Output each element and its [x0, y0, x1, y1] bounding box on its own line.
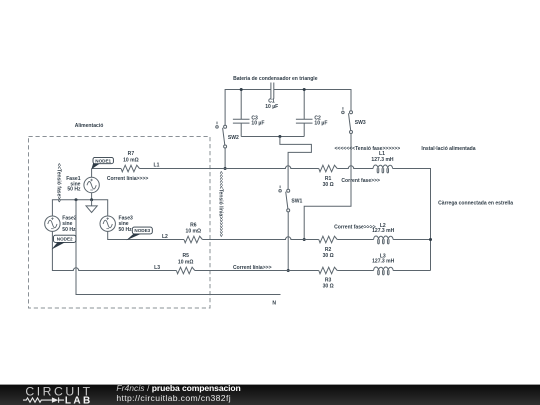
wire Fase1 top to L1 [91, 169, 93, 178]
capacitor C3 [233, 119, 250, 123]
svg-text:30 Ω: 30 Ω [323, 284, 334, 290]
resistor R6 [184, 236, 202, 243]
svg-text:LAB: LAB [65, 396, 93, 405]
svg-text:<<Tensió fase>>: <<Tensió fase>> [55, 163, 61, 202]
source Fase1 [84, 177, 99, 192]
wire Fase1 bottom to rail [91, 193, 93, 200]
wire L1 line [92, 168, 122, 170]
source Fase2 [45, 216, 60, 231]
svg-text:Corrent línia>>>>: Corrent línia>>>> [107, 176, 149, 182]
svg-text:10 µF: 10 µF [265, 104, 278, 110]
inductor L3 [374, 267, 394, 275]
svg-text:SW3: SW3 [355, 120, 366, 126]
capacitor C2 [296, 119, 313, 123]
resistor R7 [121, 165, 139, 172]
wire L3 mid [195, 270, 319, 272]
wire L3 to rail [393, 270, 430, 272]
wire top capacitor bus [225, 90, 351, 126]
svg-text:Corrent línia>>>: Corrent línia>>> [233, 265, 272, 271]
svg-text:L2: L2 [162, 234, 168, 240]
dashed enclosure Alimentacio [29, 137, 211, 309]
svg-text:NODE1: NODE1 [95, 158, 111, 163]
svg-text:R5: R5 [182, 253, 189, 259]
svg-text:50 Hz: 50 Hz [119, 227, 133, 233]
svg-text:30 Ω: 30 Ω [323, 253, 334, 259]
svg-text:Bateria de condensador en tria: Bateria de condensador en triangle [233, 76, 318, 82]
svg-text:10 mΩ: 10 mΩ [186, 229, 202, 235]
svg-text:Instal·lació alimentada: Instal·lació alimentada [421, 146, 475, 152]
svg-text:127.3 mH: 127.3 mH [372, 259, 395, 265]
svg-text:SW2: SW2 [228, 135, 239, 141]
svg-text:sine: sine [119, 221, 129, 227]
junction SW1-L3 [287, 269, 290, 272]
svg-text:L1: L1 [154, 162, 160, 168]
node NODE1 [91, 163, 100, 170]
wire L2 to rail [393, 239, 430, 241]
switch SW1 [279, 186, 290, 212]
inductor L2 [374, 236, 394, 244]
svg-text:<<<<<<Tensió línia>>>>>>>: <<<<<<Tensió línia>>>>>>> [218, 171, 224, 237]
wire SW2 to L1 [224, 148, 226, 169]
svg-text:R3: R3 [325, 278, 332, 284]
junction rail fase1 [90, 198, 93, 201]
svg-text:R2: R2 [325, 247, 332, 253]
svg-text:L3: L3 [154, 265, 160, 271]
junction top left [240, 88, 243, 91]
svg-text:sine: sine [62, 221, 72, 227]
svg-text:NODE2: NODE2 [57, 237, 73, 242]
wire L3 line from Fase2 [52, 231, 176, 270]
svg-text:127.3 mH: 127.3 mH [371, 157, 394, 163]
wire SW1 to L3 [287, 212, 289, 271]
wire L2 line [108, 231, 184, 239]
svg-text:Corrent fase>>>>: Corrent fase>>>> [334, 224, 376, 230]
svg-text:30 Ω: 30 Ω [323, 182, 334, 188]
svg-text:<<<<<<<Tensió fase>>>>>>: <<<<<<<Tensió fase>>>>>> [334, 146, 400, 152]
svg-text:N: N [272, 301, 276, 307]
junction rail neutral [75, 198, 78, 201]
wire L2 mid [202, 237, 318, 240]
svg-text:R1: R1 [325, 176, 332, 182]
resistor R5 [176, 267, 194, 274]
ground [91, 200, 93, 206]
svg-text:10 mΩ: 10 mΩ [178, 259, 194, 265]
svg-text:10 mΩ: 10 mΩ [123, 157, 139, 163]
svg-text:10 µF: 10 µF [251, 121, 264, 127]
svg-text:SW1: SW1 [291, 198, 302, 204]
wire L3 to coil [337, 270, 373, 272]
capacitor C1 [271, 83, 274, 99]
svg-text:127.3 mH: 127.3 mH [372, 228, 395, 234]
svg-text:Càrrega connectada en estrella: Càrrega connectada en estrella [438, 200, 513, 206]
junction SW2-L1 [224, 167, 227, 170]
svg-text:R6: R6 [190, 222, 197, 228]
svg-text:Fr4ncis / prueba compensacion: Fr4ncis / prueba compensacion [116, 383, 240, 393]
resistor R1 [319, 165, 337, 172]
logo diode [52, 397, 59, 402]
junction top right [303, 88, 306, 91]
wire C3 branch [240, 90, 242, 137]
logo resistor [23, 398, 52, 402]
source Fase3 [100, 216, 115, 231]
svg-text:10 µF: 10 µF [314, 121, 327, 127]
inductor L1 [373, 165, 393, 173]
junction L2 rail [429, 238, 432, 241]
svg-text:Alimentació: Alimentació [75, 123, 104, 129]
wire C2 branch [303, 90, 305, 137]
wire L1 mid [140, 166, 319, 169]
wire source common rail [52, 200, 107, 216]
switch SW2 [216, 122, 227, 148]
switch SW3 [342, 107, 353, 133]
svg-text:Corrent fase>>>: Corrent fase>>> [341, 178, 380, 184]
junction SW3-L2 [303, 238, 306, 241]
banner [0, 0, 1, 1]
wire SW3 jog to L2 [304, 134, 351, 240]
resistor R2 [319, 236, 337, 243]
wire neutral vertical and N line [76, 200, 281, 295]
wire L1 to rail [393, 169, 431, 271]
resistor R3 [319, 267, 337, 274]
svg-text:R7: R7 [128, 151, 135, 157]
svg-text:http://circuitlab.com/cn382fj: http://circuitlab.com/cn382fj [116, 393, 231, 403]
svg-text:NODE3: NODE3 [134, 228, 150, 233]
wire capacitor bottom bus [241, 136, 304, 138]
wire L2 to coil [337, 239, 373, 241]
node NODE3 [126, 233, 140, 240]
svg-text:50 Hz: 50 Hz [67, 187, 81, 193]
junction bottom center [278, 135, 281, 138]
svg-text:50 Hz: 50 Hz [62, 227, 76, 233]
wire cap bottom jog to SW1 [280, 137, 312, 190]
wire L1 to coil [337, 166, 373, 169]
node NODE2 [52, 242, 65, 250]
